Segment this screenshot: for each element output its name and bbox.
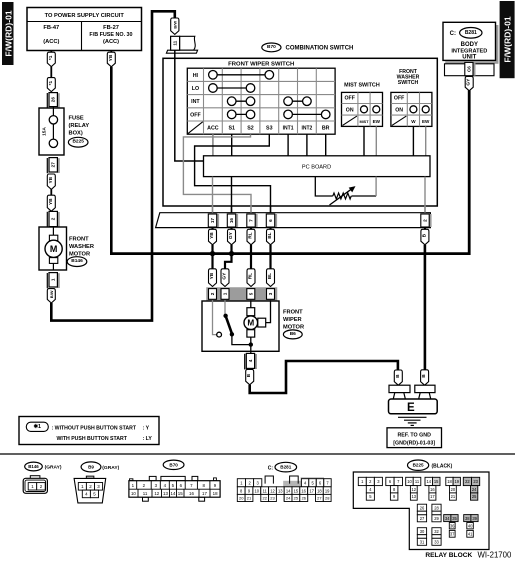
wire label B (right ground terminal) [421,370,429,385]
svg-text:FB-47: FB-47 [43,25,59,31]
wire YB accessory feed down [110,67,113,254]
svg-text:16: 16 [301,488,306,493]
wire YB to YB [50,189,52,195]
svg-text:(ACC): (ACC) [43,39,59,45]
svg-text:(BLACK): (BLACK) [432,464,453,470]
relay block outline [353,472,489,550]
switch SW3 front washer switch table [391,92,432,126]
label FRONT WASHER MOTOR [69,237,94,258]
svg-text:18: 18 [213,491,218,496]
wire stub into bar [250,206,252,213]
svg-text:26: 26 [51,97,56,103]
label REF. TO GND box [387,428,442,448]
svg-text:10: 10 [131,491,136,496]
svg-text:S3: S3 [266,126,273,132]
wire label B/W (washer motor lead) [47,289,55,303]
svg-text:REF. TO GND: REF. TO GND [397,432,431,438]
svg-text:F/W(RD)-01: F/W(RD)-01 [3,10,13,57]
wire label GY (body integrated unit) [465,76,473,90]
wire INT1 column to PC board [287,134,289,156]
wire stub into bar [231,206,233,213]
svg-text:32: 32 [434,529,439,534]
ground hatch symbol [398,417,427,425]
svg-text:F/B FUSE NO. 30: F/B FUSE NO. 30 [89,32,132,38]
svg-text:INT1: INT1 [283,126,294,132]
svg-text:28: 28 [325,496,330,501]
pin 2 washer motor connector [47,211,60,227]
svg-text:35: 35 [452,516,457,521]
svg-text:20: 20 [451,487,456,492]
switch SW2 mist switch table [342,92,383,126]
connector B70 pinout [129,476,220,501]
svg-text:C6: C6 [466,66,471,72]
pin 11 combination switch connector with cut bar [166,36,197,53]
wire YB to ACC bus junction [211,245,213,255]
svg-text:(GRAY): (GRAY) [102,465,119,471]
svg-text:GY: GY [222,272,228,280]
svg-text:15: 15 [294,488,299,493]
separator line [0,453,515,455]
wire PC board to pin 17 [212,177,214,213]
wire pin 11 to PC board [175,50,204,161]
svg-text:B6: B6 [290,331,296,337]
wire INT2 column to PC board [306,134,308,156]
svg-text:OFF: OFF [190,112,201,118]
pin 17 of B70 bar [208,214,219,227]
wire ACC power bus to body integrated unit [110,90,469,253]
label FUSE (RELAY BOX) [69,116,90,137]
svg-text:S1: S1 [228,126,235,132]
svg-text:SWITCH: SWITCH [398,80,419,86]
svg-text:WI-21700: WI-21700 [478,551,512,560]
pin 3 of wiper motor [267,289,275,300]
svg-text:2: 2 [51,217,56,220]
wire arm to motor common [232,334,251,344]
wire wiper motor to ground terminal [250,361,398,393]
wire label *1 (upper) [47,52,55,66]
wire S2 column to connector pin 7 [183,134,251,213]
svg-text:B146: B146 [71,258,83,264]
node F/W(RD)-01 right page tab [500,1,515,78]
svg-text:3: 3 [268,292,273,295]
svg-text:M: M [50,244,58,254]
wire pin1 to switch arm [224,300,226,315]
wire pin2 to park contact [213,300,217,334]
wire label YB (lower) [47,195,55,211]
svg-text:28: 28 [434,505,439,510]
svg-text:B225: B225 [72,139,84,145]
svg-text:(ACC): (ACC) [103,39,119,45]
svg-text:27: 27 [317,496,322,501]
pin 26 relay box connector [47,93,60,108]
svg-text:WASHER: WASHER [69,244,94,250]
note box *1 wire colour legend [19,417,159,445]
svg-text:S2: S2 [247,126,254,132]
label FRONT WIPER MOTOR [283,309,304,330]
pin 27 relay box connector [47,158,60,174]
switch arm (auto stop) [217,314,234,337]
contacts OFF row INT1-BR [284,110,330,119]
svg-text:16: 16 [229,218,234,224]
pin 1 of wiper motor [221,289,229,300]
svg-text:F/W(RD)-01: F/W(RD)-01 [503,16,513,63]
svg-text:13: 13 [412,494,417,499]
svg-text:1: 1 [51,278,56,281]
svg-text:W: W [411,119,416,124]
svg-text:ON: ON [346,107,354,113]
svg-text:B: B [421,233,427,237]
svg-text:15A: 15A [42,127,48,136]
pin 4 of wiper motor [245,353,257,369]
wire GY to ACC bus junction [230,245,232,255]
svg-text:25: 25 [472,494,477,499]
svg-text:11: 11 [173,40,178,45]
wire PC board to pin 2 [424,177,426,213]
wire pin5 to motor brush [250,300,252,307]
wire MIST column to PC board [363,126,365,155]
wire label B (wiper motor ground lead) [246,369,254,384]
svg-text:PC BOARD: PC BOARD [302,165,331,171]
wire BR column to PC board [325,134,327,156]
wire label B (bar pin 2 ground lead) [424,228,426,230]
connector B146 pinout [23,476,47,494]
svg-text:B281: B281 [280,465,291,470]
connector B281 oval (legend) [268,462,297,472]
svg-text:22: 22 [262,496,267,501]
svg-text:FB-27: FB-27 [103,25,119,31]
svg-text:30: 30 [420,529,425,534]
svg-text:14: 14 [286,488,291,493]
svg-text:B146: B146 [28,464,39,469]
front washer motor B146 [39,227,67,270]
svg-text:2: 2 [423,219,428,222]
svg-text:FRONT: FRONT [283,309,303,315]
wire PC board to pin 16 [231,177,233,213]
junction dot GY / ACC bus [229,251,234,256]
svg-text:OFF: OFF [394,96,404,102]
svg-text:INT2: INT2 [301,126,312,132]
terminal lug right [415,385,435,399]
svg-text:ON: ON [395,107,403,113]
svg-text:38: 38 [465,516,470,521]
svg-text:6: 6 [268,219,273,222]
svg-text:25: 25 [294,496,299,501]
svg-text:33: 33 [434,540,439,545]
svg-text:YB: YB [209,232,215,239]
svg-text:YB: YB [108,54,114,61]
connector B146 oval [67,257,87,267]
wire YB down to motor pin 2 [211,254,213,270]
svg-text:GY: GY [228,231,234,239]
svg-text:26: 26 [420,505,425,510]
svg-text:BL: BL [267,273,273,279]
svg-text:TO POWER SUPPLY CIRCUIT: TO POWER SUPPLY CIRCUIT [45,13,125,19]
wire B/W washer motor to combination switch pin 11 [51,11,175,320]
svg-text:7: 7 [249,219,254,222]
svg-text:RL: RL [248,273,254,279]
svg-text:12: 12 [412,487,417,492]
labels wiper switch rows and columns [190,73,330,132]
svg-text:B225: B225 [413,463,424,468]
svg-text:WIPER: WIPER [283,317,302,323]
fuse 15A (relay box) F/B [39,107,64,155]
label FRONT WASHER SWITCH [397,69,420,86]
svg-text:: WITHOUT PUSH BUTTON START: : WITHOUT PUSH BUTTON START [52,425,137,431]
svg-text:15: 15 [434,479,439,484]
svg-text:M: M [247,319,254,328]
wire pin17 to label YB [211,228,213,230]
svg-text:BL: BL [267,232,273,238]
wire label YB (upper) [47,174,55,189]
svg-text:13: 13 [163,491,168,496]
svg-text:12: 12 [154,491,159,496]
svg-text:11: 11 [263,488,268,493]
wire stub into bar [270,206,272,213]
wire MIST EW column to PC board [375,126,377,155]
wire label B/W (at combination switch) [171,18,179,34]
svg-text:40: 40 [468,523,473,528]
contacts HI row ACC-S3 [209,71,274,80]
svg-text:UNIT: UNIT [462,54,476,60]
svg-text:E: E [407,402,415,414]
wire *1 to *1 [50,67,52,78]
terminal lug left [389,385,410,399]
svg-text:C:: C: [268,465,274,471]
svg-text:YB: YB [48,198,54,205]
wire label BL (harness upper) [267,229,275,245]
svg-text:RL: RL [248,232,254,238]
svg-text:ACC: ACC [207,126,219,132]
pin 2 of wiper motor [209,289,217,300]
connector B6 oval [283,330,302,339]
svg-text:4: 4 [248,359,253,362]
svg-text:15: 15 [178,491,183,496]
wire label *1 (lower) [47,78,55,92]
connector B70 oval [262,43,281,52]
motor M1 front wiper motor box B6 [202,301,279,351]
svg-text:17: 17 [210,218,215,224]
svg-text:RELAY BLOCK: RELAY BLOCK [425,552,472,559]
svg-text:C:: C: [450,31,456,37]
op box combination switch B70 outline [163,58,437,206]
svg-text:BR: BR [322,126,330,132]
svg-text:27: 27 [51,162,56,168]
wire RL crossing bus down to lower label [250,245,252,270]
wire label YB (harness upper) [209,229,217,245]
svg-text:BOX): BOX) [69,131,83,137]
svg-text:24: 24 [472,487,477,492]
svg-text:18: 18 [317,488,322,493]
wire pin2 bar to ground terminal [424,245,427,370]
svg-text:21: 21 [247,496,252,501]
wire stub into bar [424,206,426,213]
svg-text:FUSE: FUSE [69,116,84,122]
svg-text:GY: GY [466,78,472,86]
connector B70 oval (legend) [163,460,184,469]
svg-text:37: 37 [450,532,455,537]
contacts INT row INT1-INT2 [284,97,311,106]
svg-text:FRONT: FRONT [69,237,89,243]
pin 16 of B70 bar [227,214,238,227]
svg-text:41: 41 [468,532,473,537]
svg-text:LO: LO [192,86,199,92]
connector B225 oval [68,137,88,147]
wire ACC column to PC board [212,134,214,156]
wire label GY (harness lower) [221,269,229,287]
wire label RL (harness lower) [247,269,255,287]
op box body integrated unit B281 [443,22,498,64]
svg-text:14: 14 [171,491,176,496]
svg-text:12: 12 [270,488,275,493]
connector bar of front wiper motor [207,288,278,301]
pin 7 of B70 bar [247,214,258,227]
svg-text:1: 1 [223,292,228,295]
svg-text:10: 10 [407,479,412,484]
svg-text:: Y: : Y [143,425,150,431]
svg-text:FRONT WIPER SWITCH: FRONT WIPER SWITCH [228,61,294,67]
svg-text:YB: YB [209,272,215,279]
svg-text:B: B [246,373,252,377]
svg-text:B: B [395,374,401,378]
wire BL crossing bus down to lower label [269,245,271,270]
svg-text:INT: INT [191,99,200,105]
svg-text:EW: EW [373,119,381,124]
contacts OFF row S1-S2 [227,110,254,119]
svg-text:B/W: B/W [49,290,54,298]
svg-text:31: 31 [420,540,425,545]
svg-text:*1: *1 [48,81,54,86]
svg-text:11: 11 [143,491,148,496]
wire label YB (harness lower) [209,269,217,287]
svg-text:: LY: : LY [143,436,153,442]
svg-text:BODY: BODY [461,42,478,48]
connector B70 harness bar [156,213,431,228]
svg-text:EW: EW [422,119,430,124]
svg-text:24: 24 [286,496,291,501]
svg-text:(GRAY): (GRAY) [45,465,62,471]
wire label BL (harness lower) [267,269,275,287]
wire motor to pin 4 [250,337,252,353]
svg-text:5: 5 [248,292,253,295]
op box PC BOARD [204,156,431,177]
wire GY jog to motor pin 1 [225,254,232,270]
wire pin7 to label RL [250,228,252,230]
connector B281 pinout [237,476,331,502]
svg-text:19: 19 [325,488,330,493]
svg-text:B70: B70 [267,44,276,50]
svg-text:27: 27 [420,516,425,521]
svg-text:23: 23 [270,496,275,501]
svg-text:2: 2 [210,292,215,295]
svg-text:19: 19 [455,479,460,484]
connector B225 oval (legend) [408,460,453,470]
resistor R1 variable (intermittent time) [315,177,376,205]
svg-text:16: 16 [430,487,435,492]
motor M symbol [244,308,266,337]
wire label B (left ground terminal) [394,370,402,385]
svg-text:B281: B281 [465,30,477,36]
node F/W(RD)-01 left page tab [2,2,14,65]
svg-text:26: 26 [302,496,307,501]
svg-text:21: 21 [451,494,456,499]
wire label GY (harness upper) [228,229,236,245]
wire stub into bar [212,206,214,213]
wire label RL (harness upper) [247,229,255,245]
pin 1 washer motor connector [47,273,60,289]
svg-text:14: 14 [427,479,432,484]
svg-text:23: 23 [473,479,478,484]
contacts INT row S1-S2 [227,97,254,106]
ground E block [389,399,438,414]
pin 6 of B70 bar [266,214,277,227]
wire pin3 to motor side winding [266,300,271,322]
svg-text:36: 36 [450,523,455,528]
svg-text:17: 17 [202,491,207,496]
connector B9 pinout [74,476,106,503]
svg-text:39: 39 [472,516,477,521]
svg-text:17: 17 [309,488,314,493]
wire pin16 to label GY [230,228,232,230]
svg-text:B/W: B/W [172,21,177,29]
svg-text:17: 17 [430,494,435,499]
svg-text:13: 13 [278,488,283,493]
wire S3 column to connector pin 6 [195,134,271,213]
wire S1 column to PC board [231,134,233,156]
svg-text:MIST SWITCH: MIST SWITCH [344,82,380,88]
svg-text:B9: B9 [88,464,94,469]
wire label YB (FB-27 feed) [110,51,112,54]
wire FB-47 to fuse [50,51,52,54]
wire washer W column to PC board [412,126,414,155]
wire pin6 to label BL [269,228,271,230]
svg-text:HI: HI [193,73,199,79]
svg-text:(RELAY: (RELAY [69,123,90,129]
power supply circuit box FB-47 / FB-27 [27,8,142,51]
wire washer EW column to PC board [425,126,427,155]
switch SW1 front wiper switch table grid [187,68,335,134]
contacts LO row ACC-S2 [209,84,255,93]
pin 5 of wiper motor [247,289,255,300]
pin 2 of B70 bar [421,214,432,227]
svg-text:11: 11 [415,479,420,484]
svg-text:✱1: ✱1 [34,424,42,430]
svg-text:*1: *1 [48,55,54,60]
svg-text:B: B [421,374,427,378]
svg-text:22: 22 [465,479,470,484]
svg-text:COMBINATION SWITCH: COMBINATION SWITCH [286,46,354,52]
svg-text:[GND(RD)-01-03]: [GND(RD)-01-03] [393,440,435,446]
svg-text:20: 20 [239,496,244,501]
junction dot motor common [249,342,253,346]
svg-text:YB: YB [48,176,54,183]
svg-text:18: 18 [447,479,452,484]
svg-text:OFF: OFF [345,96,355,102]
svg-text:10: 10 [255,488,260,493]
svg-text:WITH PUSH BUTTON START: WITH PUSH BUTTON START [57,436,128,442]
connector B146 oval (legend) [25,462,62,471]
svg-text:34: 34 [445,516,450,521]
svg-text:MIST: MIST [359,120,369,124]
connector B9 oval (legend) [81,462,120,472]
svg-text:16: 16 [189,491,194,496]
junction dot YB / ACC bus [210,251,215,256]
connector bar of body integrated unit [445,62,495,75]
svg-text:B70: B70 [169,462,178,467]
svg-text:29: 29 [434,516,439,521]
